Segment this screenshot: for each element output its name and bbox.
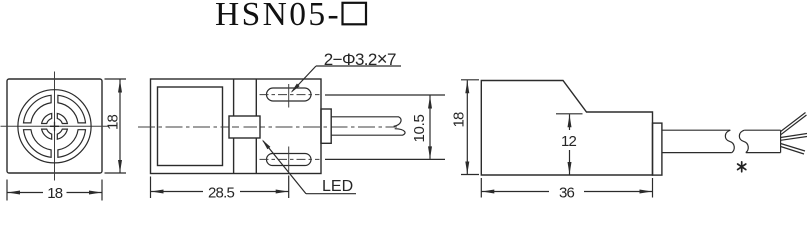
end view body outline with chamfer xyxy=(481,81,652,176)
bottom slot horizontal centerline xyxy=(260,158,320,160)
bottom mounting slot xyxy=(267,154,312,166)
front height dimension 18: extension lines xyxy=(105,78,127,80)
front width dimension 18: extension lines xyxy=(6,180,8,201)
svg-text:18: 18 xyxy=(47,185,63,202)
end view height dimension 18: extension lines xyxy=(461,79,479,81)
LED leader line xyxy=(263,141,306,194)
front view vertical centerline xyxy=(54,72,56,181)
side view cable bottom line xyxy=(331,129,405,136)
center cross mark xyxy=(50,122,59,131)
wire 3 lower xyxy=(781,144,805,155)
face-to-hole dimension 28.5: extension lines xyxy=(150,177,152,199)
end view cable bottom line left piece xyxy=(662,152,732,154)
hole spacing dimension 10.5: dimension line xyxy=(429,96,431,159)
top slot horizontal centerline xyxy=(260,94,320,96)
sensing face outer ring segments xyxy=(58,95,86,123)
end view length dimension 36: extension lines xyxy=(480,178,482,198)
top mounting slot xyxy=(267,88,312,101)
svg-text:18: 18 xyxy=(105,115,122,131)
end view length dimension 36: dimension line xyxy=(481,191,549,193)
front view horizontal centerline xyxy=(1,125,109,127)
cable break squiggle 2 xyxy=(739,130,748,152)
svg-text:HSN05-: HSN05- xyxy=(215,0,341,33)
end view cable top line left piece xyxy=(662,129,730,131)
svg-text:36: 36 xyxy=(559,184,575,201)
main horizontal centerline xyxy=(138,126,397,128)
side view body outline xyxy=(151,79,322,174)
svg-text:LED: LED xyxy=(322,178,353,195)
LED label underline xyxy=(306,193,356,195)
cable height dimension 12: dimension line xyxy=(569,114,571,130)
wire 1 upper xyxy=(781,113,807,135)
front width dimension 18: dimension line xyxy=(7,192,43,194)
front view body outline xyxy=(7,79,102,173)
face-to-hole dimension 28.5: dimension line xyxy=(151,191,204,193)
svg-text:28.5: 28.5 xyxy=(208,184,234,201)
cable break squiggle 1 xyxy=(725,130,734,152)
side view cable top line xyxy=(331,117,401,127)
title model square xyxy=(343,3,367,25)
end view height dimension 18: dimension line xyxy=(466,80,468,174)
end view cable gland xyxy=(653,123,662,175)
svg-text:18: 18 xyxy=(451,112,468,128)
svg-text:10.5: 10.5 xyxy=(411,115,428,143)
LED window centerline dash xyxy=(232,126,257,128)
end view cable top line right piece xyxy=(744,129,780,131)
label 2-PHI3.2x7 underline xyxy=(316,65,401,67)
side view sensing head inner square xyxy=(158,87,223,166)
cable end cap xyxy=(780,130,782,152)
hole spacing dimension 10.5: extension lines xyxy=(325,94,445,96)
wire 2 middle xyxy=(781,134,807,141)
end view cable bottom line right piece xyxy=(746,152,781,154)
asterisk footnote mark xyxy=(738,162,746,172)
svg-text:12: 12 xyxy=(561,133,577,150)
side view cable gland xyxy=(321,109,331,143)
bottom slot vertical centerline xyxy=(288,147,290,172)
mounting flange strip right line xyxy=(255,79,257,174)
sensing face inner ring segments xyxy=(57,113,67,123)
mounting flange strip left line xyxy=(233,79,235,174)
top slot vertical centerline xyxy=(288,84,290,108)
sensing face outer circle xyxy=(18,90,91,163)
front height dimension 18: dimension line xyxy=(119,80,121,173)
label 2-PHI3.2x7 leader line xyxy=(292,66,316,92)
cable height dimension 12: reference tick xyxy=(556,113,583,115)
LED window rectangle xyxy=(229,116,260,138)
